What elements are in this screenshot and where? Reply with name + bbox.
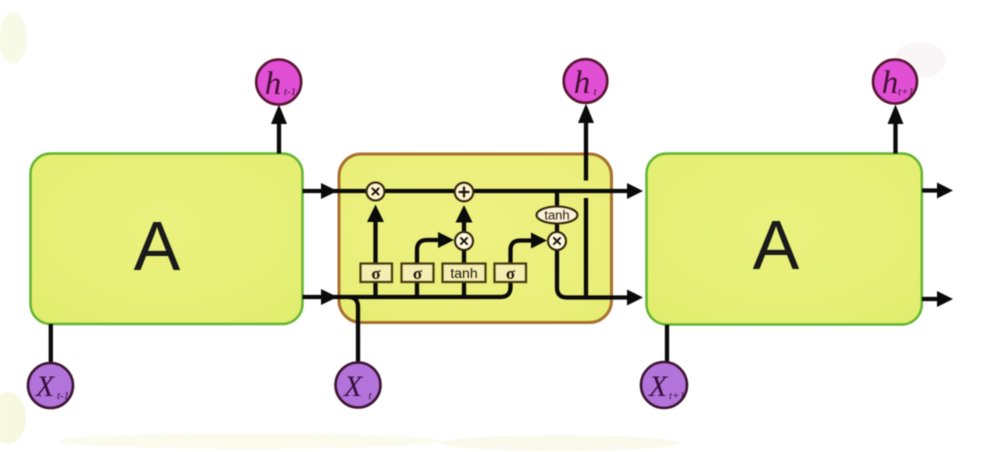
arrowhead sigma3 into circle-x3 bbox=[531, 233, 547, 249]
wire x_t-1 stem bbox=[49, 324, 53, 364]
wire C-line input/through (cell state) bbox=[303, 189, 629, 193]
svg-text:σ: σ bbox=[506, 264, 516, 283]
node x_t-1 circle bbox=[28, 363, 73, 408]
wire forget-gate riser sigma1 to circle-x bbox=[373, 219, 377, 264]
gate sigma2 bbox=[402, 264, 434, 283]
wire tanh-gate riser to circle-x2 bbox=[462, 250, 466, 264]
wire h-line input segment bbox=[303, 281, 511, 297]
svg-text:t-1: t-1 bbox=[284, 86, 296, 98]
gate sigma3 bbox=[495, 264, 527, 283]
wire C branch down to tanh ellipse bbox=[555, 191, 559, 207]
block A left bbox=[31, 154, 303, 325]
svg-text:t+1: t+1 bbox=[669, 390, 685, 402]
wire right block output bottom bbox=[922, 297, 938, 301]
wire tanh ellipse to circle-x3 bbox=[555, 224, 559, 233]
arrowhead h-line into cell bbox=[321, 289, 338, 305]
op circle-x2 (input * candidate) bbox=[455, 232, 473, 250]
wire circle-x2 to plus riser bbox=[462, 219, 466, 232]
lstm cell body bbox=[339, 154, 612, 323]
wire h_t riser lower segment bbox=[584, 198, 588, 298]
wire x_t riser bbox=[348, 297, 358, 363]
svg-text:h: h bbox=[265, 66, 282, 102]
svg-text:tanh: tanh bbox=[450, 265, 477, 281]
svg-text:tanh: tanh bbox=[544, 208, 569, 223]
block A right bbox=[647, 154, 922, 325]
arrowhead into circle-x1 bbox=[367, 205, 384, 223]
wire sigma2 bottom stub bbox=[415, 282, 419, 299]
wire output-gate curve sigma3 bbox=[511, 241, 532, 264]
op circle-x1 (pointwise multiply on C line) bbox=[367, 183, 385, 201]
svg-text:X: X bbox=[648, 370, 669, 403]
node h_t-1 circle bbox=[256, 60, 301, 105]
svg-text:A: A bbox=[134, 207, 181, 285]
node h_t+1 circle bbox=[873, 60, 917, 104]
svg-text:A: A bbox=[753, 206, 800, 284]
wire x_t+1 stem bbox=[665, 325, 669, 363]
svg-text:σ: σ bbox=[413, 264, 423, 283]
node x_t circle bbox=[336, 363, 381, 408]
svg-text:h: h bbox=[882, 65, 899, 101]
arrowhead C-line into cell bbox=[321, 183, 338, 199]
node x_t+1 circle bbox=[641, 362, 687, 408]
wire sigma1 bottom stub bbox=[373, 282, 377, 299]
svg-text:t-1: t-1 bbox=[57, 390, 69, 402]
wire tanh box bottom stub bbox=[462, 282, 466, 299]
arrowhead h-line into right block bbox=[627, 290, 643, 306]
wire h-line output segment bbox=[557, 249, 628, 298]
wire h_t riser upper segment bbox=[584, 121, 588, 181]
svg-text:σ: σ bbox=[371, 264, 381, 283]
svg-text:t+1: t+1 bbox=[898, 86, 914, 98]
gate tanh layer bbox=[443, 264, 486, 283]
svg-text:X: X bbox=[343, 370, 364, 403]
arrowhead sigma2 into circle-x2 bbox=[438, 232, 454, 248]
svg-text:h: h bbox=[574, 65, 591, 101]
node h_t circle bbox=[564, 59, 608, 103]
wire right block output top bbox=[922, 188, 938, 192]
wire h_t+1 arrow from right block top bbox=[893, 122, 897, 154]
wire input-gate curve sigma2 bbox=[417, 240, 439, 264]
arrowhead h_t bbox=[578, 104, 594, 124]
op circle-plus (pointwise add on C line) bbox=[455, 183, 474, 202]
op circle-x3 (output gate multiply) bbox=[548, 232, 566, 250]
arrowhead C-line into right block bbox=[627, 183, 643, 199]
op tanh ellipse bbox=[537, 207, 578, 224]
wire h_t-1 arrow from left block top bbox=[277, 122, 281, 154]
gate sigma1 bbox=[361, 264, 393, 283]
arrowhead into plus bbox=[456, 205, 473, 223]
svg-text:X: X bbox=[35, 370, 56, 403]
